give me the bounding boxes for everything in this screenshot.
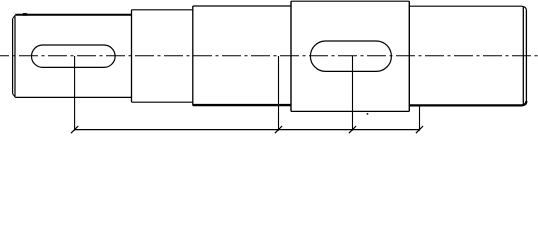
extension line from keyway 2 center [352, 56, 354, 131]
S1/S2 shoulder step [131, 10, 133, 102]
dimension tick 4 [416, 126, 423, 133]
shaft section S5 bottom edge (thick) with rounded right corner [409, 101, 526, 105]
dimension line [75, 129, 420, 131]
shaft section S4 bottom edge [291, 110, 409, 112]
shaft section S1 bottom edge [15, 96, 131, 98]
shaft section S1 top edge [15, 14, 131, 16]
extension line at node B [278, 56, 280, 131]
keyway slot 1 [32, 45, 116, 67]
shaft section S3 bottom edge (thick) [193, 104, 291, 106]
dimension tick 2 [275, 126, 282, 133]
shaft section S4 top edge [291, 0, 409, 2]
S5 chamfer edge line [522, 7, 524, 105]
S4/S5 shoulder step [408, 1, 410, 111]
shaft section S2 top edge [132, 9, 193, 11]
centerline (shaft axis, dash-dot) [0, 55, 538, 57]
shaft section S2 bottom edge [132, 101, 193, 103]
keyway slot 2 [310, 41, 391, 71]
S1 left end chamfer diagonal bottom [13, 94, 16, 98]
dimension tick 1 [71, 126, 78, 133]
S2/S3 shoulder step [192, 6, 194, 106]
S1 chamfer edge line [14, 16, 16, 96]
shaft section S5 top edge with rounded right corner [409, 6, 526, 10]
stray dot [367, 113, 369, 115]
S1 left end face [12, 19, 14, 94]
S3/S4 shoulder step [290, 1, 292, 111]
S1 top edge thick blemish [23, 13, 27, 16]
S1 left end chamfer diagonal top [13, 15, 16, 19]
extension line from keyway 1 center [74, 56, 76, 131]
S5 right end face [525, 11, 527, 102]
dimension tick 3 [349, 126, 356, 133]
extension line at node D [419, 106, 421, 131]
shaft section S3 top edge [193, 5, 291, 7]
